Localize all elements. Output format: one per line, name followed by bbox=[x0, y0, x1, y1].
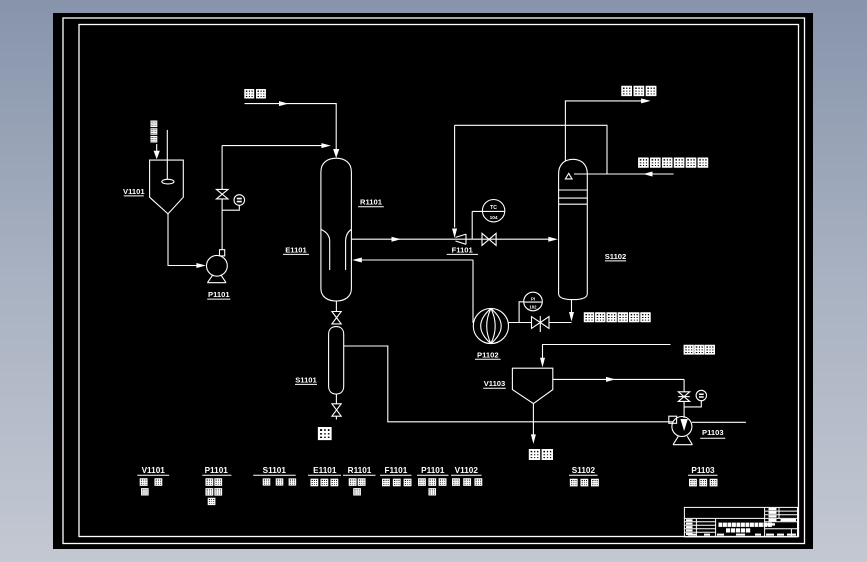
inner frame bbox=[79, 25, 799, 537]
svg-text:S1102: S1102 bbox=[572, 466, 596, 475]
svg-text:S1102: S1102 bbox=[605, 252, 627, 261]
arrow oxygen into gasifier bbox=[333, 149, 339, 158]
label P1101 bbox=[207, 290, 230, 299]
vessel S1101 slag lock hopper bbox=[329, 327, 344, 394]
wire wash water from slag recovery bbox=[574, 173, 674, 175]
vessel V1103 settler bbox=[512, 368, 552, 403]
svg-text:R1101: R1101 bbox=[348, 466, 372, 475]
svg-text:P1102: P1102 bbox=[477, 350, 499, 359]
legend V1102 bbox=[451, 466, 482, 485]
wire V1103 overflow down to P1103 bbox=[683, 379, 685, 418]
arrow S1102 bottoms down bbox=[569, 312, 574, 322]
wire raw gas from S1102 top bbox=[565, 101, 642, 161]
wire ash water branch to venturi bbox=[455, 125, 607, 174]
text 粗煤气 bbox=[622, 87, 655, 96]
instrument PI bubble bbox=[519, 292, 542, 322]
title block bbox=[684, 507, 797, 537]
legend P1101 bbox=[202, 466, 231, 504]
svg-text:102: 102 bbox=[529, 304, 537, 309]
svg-text:V1101: V1101 bbox=[142, 466, 166, 475]
svg-text:P1101: P1101 bbox=[421, 466, 445, 475]
wire V1101 outlet to P1101 bbox=[168, 214, 198, 266]
label E1101 bbox=[283, 245, 309, 254]
svg-text:P1101: P1101 bbox=[205, 466, 229, 475]
label S1102 bbox=[605, 252, 627, 261]
label R1101 bbox=[358, 198, 384, 207]
legend P1103 bbox=[688, 466, 718, 486]
valve on slurry riser bbox=[216, 189, 228, 199]
wire oxygen line bbox=[245, 104, 337, 150]
label P1102 bbox=[475, 350, 501, 359]
text 渣水 bbox=[530, 450, 552, 459]
svg-text:V1102: V1102 bbox=[455, 466, 479, 475]
pump P1103 bbox=[669, 416, 693, 445]
svg-text:104: 104 bbox=[490, 215, 498, 221]
text 絮凝剂 bbox=[684, 346, 714, 354]
svg-text:F1101: F1101 bbox=[452, 246, 474, 255]
wire P1103 discharge bbox=[692, 421, 746, 423]
text 水煤浆 (vertical) bbox=[151, 121, 157, 142]
valve on P1102 discharge bbox=[532, 316, 550, 332]
instrument bubble near riser valve bbox=[222, 195, 244, 211]
arrow on overflow line bbox=[606, 377, 616, 382]
title text line 2 bbox=[726, 528, 750, 532]
instrument TC bubble bbox=[472, 200, 505, 239]
legend R1101 bbox=[343, 466, 376, 495]
wire P1101 discharge riser bbox=[221, 146, 223, 250]
label V1103 bbox=[483, 379, 506, 388]
slurry feed arrow into V1101 bbox=[154, 144, 160, 159]
valve above P1103 bbox=[678, 392, 689, 402]
legend P1101 bbox=[417, 466, 449, 495]
vessel V1101 coal slurry tank bbox=[150, 160, 184, 214]
wire S1102 bottoms outlet bbox=[571, 300, 573, 313]
wire P1102 discharge bbox=[508, 322, 571, 324]
legend S1101 bbox=[253, 466, 296, 485]
svg-text:S1101: S1101 bbox=[295, 375, 317, 384]
pump P1102 bbox=[473, 308, 508, 343]
arrow on gasifier outlet bbox=[392, 237, 402, 242]
svg-text:F1101: F1101 bbox=[385, 466, 408, 475]
svg-text:S1101: S1101 bbox=[263, 466, 287, 475]
instrument bubble near P1103 bbox=[684, 390, 706, 407]
level mark in S1102 bbox=[565, 173, 572, 179]
label V1101 bbox=[123, 187, 145, 196]
text 渣 bbox=[319, 428, 331, 439]
svg-text:V1103: V1103 bbox=[484, 379, 506, 388]
label S1101 bbox=[295, 375, 318, 384]
svg-text:V1101: V1101 bbox=[123, 187, 145, 196]
title text line 1 bbox=[719, 523, 772, 527]
valve on scrubber feed line bbox=[482, 233, 496, 245]
svg-text:E1101: E1101 bbox=[285, 245, 307, 254]
svg-text:E1101: E1101 bbox=[313, 466, 337, 475]
pump P1101 bbox=[207, 250, 228, 283]
gasifier quench internals bbox=[321, 230, 351, 271]
venturi F1101 bbox=[456, 234, 467, 244]
arrow wash water toward S1102 bbox=[643, 172, 653, 177]
vessel R1101 gasifier bbox=[321, 158, 352, 301]
svg-text:TC: TC bbox=[490, 205, 497, 211]
wire V1103 overflow to P1103 bbox=[553, 378, 684, 380]
wire flocculant line into V1103 bbox=[543, 345, 671, 360]
text 渣回收来灰水 bbox=[639, 158, 707, 167]
legend E1101 bbox=[308, 466, 341, 485]
label F1101 bbox=[447, 246, 478, 255]
agitator of V1101 bbox=[162, 130, 174, 184]
wire V1103 underflow bbox=[532, 404, 534, 436]
svg-text:P1103: P1103 bbox=[691, 466, 715, 475]
wire gasifier outlet to scrubber bbox=[351, 238, 549, 240]
wire quench water into gasifier bbox=[361, 259, 473, 261]
packing lines in S1102 bbox=[559, 190, 588, 204]
legend F1101 bbox=[380, 466, 412, 485]
arrow into P1101 suction bbox=[196, 263, 206, 268]
svg-text:PI: PI bbox=[531, 296, 535, 301]
wire gasifier bottom to lock hopper bbox=[335, 301, 337, 420]
arrow raw gas bbox=[641, 98, 651, 103]
arrow quench water into gasifier bbox=[352, 258, 362, 263]
wire quench water from P1102 bbox=[472, 260, 474, 323]
svg-text:P1101: P1101 bbox=[208, 290, 230, 299]
wire ash water down into venturi bbox=[454, 125, 456, 227]
arrow oxygen mid-line bbox=[279, 101, 289, 106]
valve below S1101 bbox=[332, 404, 341, 416]
wire S1101 side outlet to bottom header bbox=[344, 346, 673, 422]
title block texts bbox=[686, 508, 796, 536]
valve below gasifier bbox=[332, 312, 341, 324]
arrow underflow down bbox=[531, 434, 536, 444]
vessel S1102 wash tower bbox=[559, 159, 588, 299]
legend V1101 bbox=[137, 466, 169, 495]
label P1103 bbox=[700, 428, 725, 438]
legend S1102 bbox=[569, 466, 598, 486]
text 灰水去渣回收 bbox=[585, 313, 650, 321]
text 氧气 bbox=[245, 90, 265, 98]
arrow flocculant into V1103 bbox=[540, 358, 545, 368]
arrow ash water into venturi bbox=[452, 229, 457, 239]
arrow inside P1103 bbox=[680, 419, 687, 431]
svg-text:P1103: P1103 bbox=[702, 428, 724, 437]
svg-text:R1101: R1101 bbox=[360, 198, 383, 207]
arrow into scrubber S1102 bbox=[548, 237, 558, 242]
wire slurry line to gasifier top bbox=[222, 145, 323, 147]
arrow slurry line bbox=[321, 143, 331, 148]
